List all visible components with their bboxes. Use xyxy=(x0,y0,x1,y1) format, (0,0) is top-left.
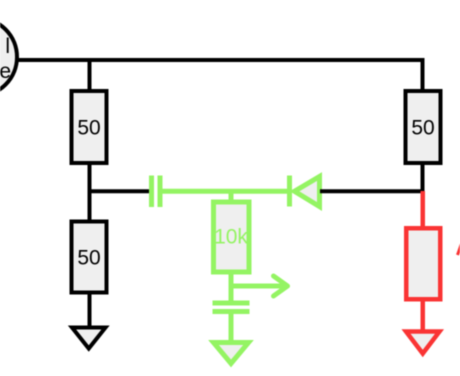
wire diode to right branch xyxy=(320,189,423,193)
resistor R3 10k xyxy=(214,202,250,272)
wire right drop xyxy=(421,58,425,91)
resistor R5 50 xyxy=(72,222,107,293)
wire R3 to C2 xyxy=(229,272,234,301)
wire R5 to ground xyxy=(88,292,92,327)
wire R4 to ground xyxy=(421,299,426,331)
capacitor C1 xyxy=(152,176,161,208)
wire stub to R3 xyxy=(229,191,234,202)
resistor R4 xyxy=(406,228,440,299)
wire R2 to node B xyxy=(421,163,425,191)
svg-text:l: l xyxy=(5,35,10,58)
wire node B to R4 xyxy=(421,191,426,228)
probe arrow xyxy=(231,276,288,296)
wire C2 to ground xyxy=(229,313,234,342)
capacitor C2 xyxy=(213,303,250,312)
wire top net xyxy=(17,58,425,62)
resistor R2 50 xyxy=(406,91,441,163)
ground left xyxy=(72,328,106,349)
svg-text:50: 50 xyxy=(411,117,434,140)
current source I1 xyxy=(0,18,17,96)
diode D1 xyxy=(290,176,320,207)
svg-text:50: 50 xyxy=(77,247,100,270)
label fragment R4 xyxy=(458,245,460,255)
wire C1 to diode xyxy=(162,189,289,194)
ground right xyxy=(406,332,440,354)
svg-text:50: 50 xyxy=(77,117,100,140)
svg-text:10k: 10k xyxy=(214,226,248,249)
wire left drop xyxy=(88,58,92,91)
wire node A to C1 xyxy=(90,189,153,193)
ground middle xyxy=(214,343,249,364)
wire between R1 and R2 xyxy=(88,163,92,221)
svg-text:e: e xyxy=(0,60,11,83)
resistor R1 50 xyxy=(72,91,107,163)
